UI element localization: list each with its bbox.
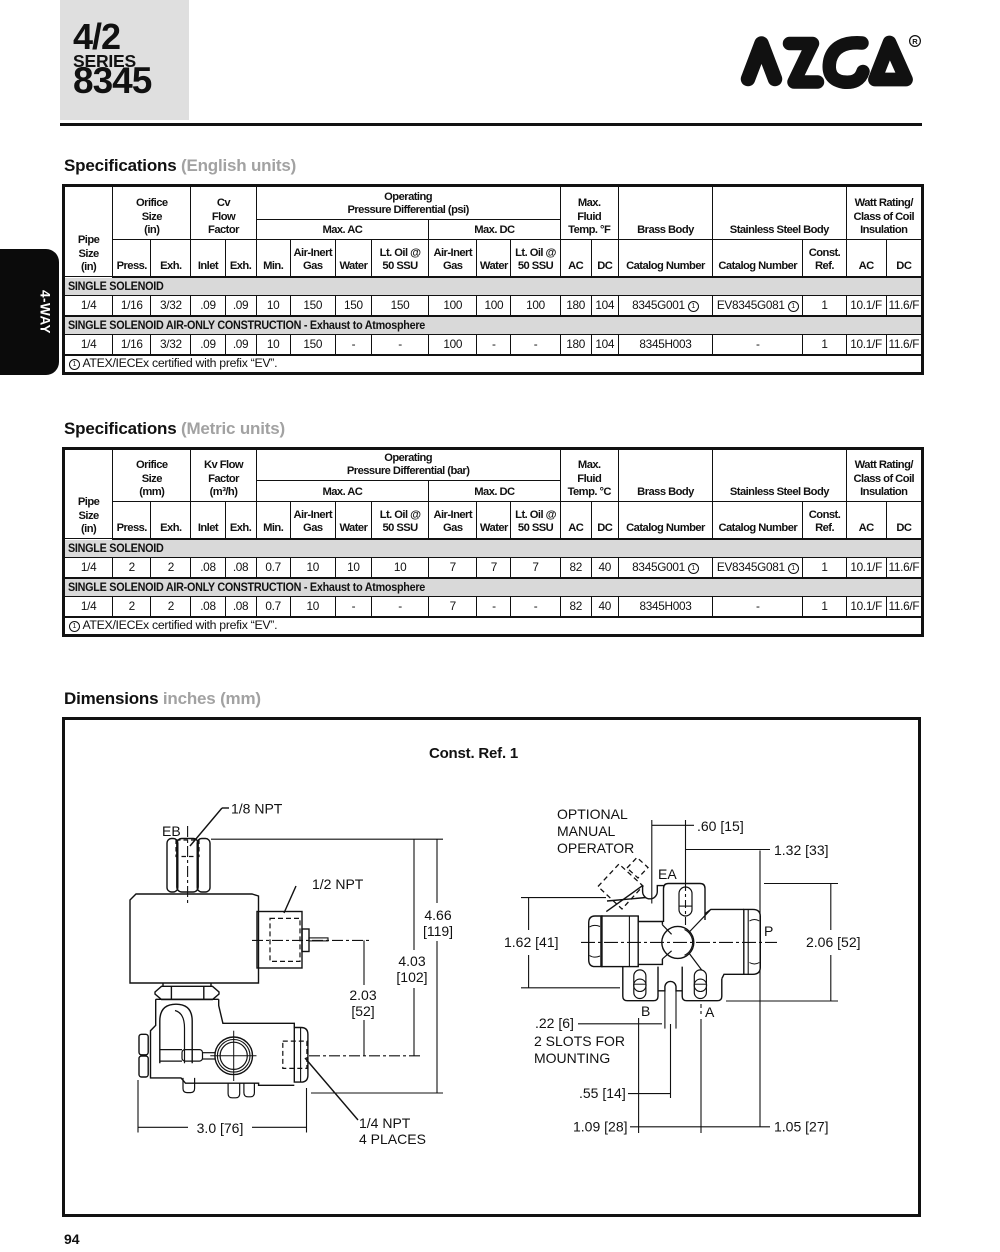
svg-text:3.0 [76]: 3.0 [76] [197, 1120, 244, 1136]
ASCO logo letter O [875, 43, 906, 80]
svg-text:EB: EB [162, 823, 181, 839]
right cap [294, 1028, 308, 1083]
svg-text:[102]: [102] [396, 969, 427, 985]
extension line bottom right [311, 1092, 443, 1094]
svg-text:1.62 [41]: 1.62 [41] [504, 934, 559, 950]
left hex body [602, 916, 638, 967]
ASCO logo letter S [790, 44, 818, 83]
dim 1.32 [33] [686, 849, 771, 851]
svg-text:4.66: 4.66 [424, 907, 451, 923]
solenoid coil body [130, 894, 259, 983]
svg-text:2.06 [52]: 2.06 [52] [806, 934, 861, 950]
notch centerline vertical [651, 820, 653, 904]
registered mark [910, 36, 921, 47]
svg-text:.22 [6]: .22 [6] [535, 1015, 574, 1031]
operator notch [643, 886, 664, 899]
1/2 NPT leader [284, 886, 296, 913]
dim 1.05 [27] [701, 1126, 770, 1128]
dim 2.06 [52] [764, 883, 838, 885]
A centerline extension [700, 1019, 702, 1133]
valve body outline [151, 999, 295, 1085]
svg-text:MANUAL: MANUAL [557, 823, 616, 839]
mounting slot lines [664, 991, 666, 1029]
right end cap [744, 909, 761, 974]
svg-text:P: P [764, 923, 773, 939]
right block [705, 909, 744, 978]
dim 3.0 [76] [137, 1080, 139, 1133]
dim 4.03 [102] [413, 839, 415, 950]
body stubs [183, 1078, 195, 1093]
EA slot [679, 887, 692, 916]
svg-text:[119]: [119] [423, 923, 453, 939]
terminal pin [309, 938, 328, 941]
ASCO logo letter A [748, 44, 775, 80]
dim 4.66 [119] [436, 839, 438, 903]
B port block [623, 967, 658, 1001]
svg-text:EA: EA [658, 866, 677, 882]
top extension line [211, 838, 443, 840]
valve centerline [309, 1055, 421, 1057]
operator leader [607, 898, 646, 902]
left end cap [589, 916, 602, 967]
B slot [634, 970, 646, 999]
body top-left diagonal [606, 886, 642, 912]
P extension vertical [759, 851, 761, 1128]
EB centerline [187, 826, 189, 903]
svg-text:1/8 NPT: 1/8 NPT [231, 801, 283, 817]
front port circles [215, 1037, 253, 1075]
svg-text:4.03: 4.03 [398, 953, 425, 969]
svg-text:A: A [705, 1004, 715, 1020]
svg-text:[52]: [52] [351, 1003, 374, 1019]
left port stub [139, 1034, 148, 1055]
1/4 NPT leader [305, 1058, 358, 1120]
svg-text:2 SLOTS FOR: 2 SLOTS FOR [534, 1033, 625, 1049]
A port block [682, 967, 722, 1001]
1/8 NPT leader [190, 808, 222, 846]
bottom center with mounting slot arch [658, 981, 682, 990]
B centerline extension [638, 1018, 640, 1133]
center boss [638, 916, 662, 967]
EB port fitting (hex) [167, 839, 178, 893]
dim 1.62 [41] [521, 897, 606, 899]
svg-text:2.03: 2.03 [349, 987, 376, 1003]
passage X lines [662, 925, 671, 935]
svg-text:1.32 [33]: 1.32 [33] [774, 842, 829, 858]
EA port block [664, 884, 706, 923]
ball [662, 926, 694, 958]
bonnet arch [160, 1004, 192, 1063]
1/2 NPT conduit hub [257, 912, 302, 969]
manual operator hidden outline [598, 864, 643, 909]
hub centerline [252, 939, 371, 941]
dim .60 [15] [652, 824, 694, 826]
svg-text:1.05 [27]: 1.05 [27] [774, 1119, 829, 1135]
EA centerline vertical [685, 820, 687, 883]
svg-text:.60 [15]: .60 [15] [697, 818, 744, 834]
A slot [694, 970, 706, 999]
ASCO logo letter C [829, 43, 863, 82]
svg-text:OPERATOR: OPERATOR [557, 840, 634, 856]
svg-text:1/4 NPT: 1/4 NPT [359, 1115, 411, 1131]
svg-text:1/2 NPT: 1/2 NPT [312, 876, 364, 892]
link block [160, 1049, 182, 1051]
svg-text:B: B [641, 1003, 650, 1019]
EB thread hidden lines [176, 840, 199, 857]
svg-text:MOUNTING: MOUNTING [534, 1050, 610, 1066]
svg-text:1.09 [28]: 1.09 [28] [573, 1119, 628, 1135]
svg-text:4 PLACES: 4 PLACES [359, 1131, 426, 1147]
svg-text:OPTIONAL: OPTIONAL [557, 806, 628, 822]
hidden 1/4 NPT port [283, 1041, 307, 1068]
main horizontal centerline [581, 941, 777, 943]
dim 2.03 [52] [363, 940, 365, 985]
svg-text:.55 [14]: .55 [14] [579, 1085, 626, 1101]
mounting nut [155, 986, 219, 999]
